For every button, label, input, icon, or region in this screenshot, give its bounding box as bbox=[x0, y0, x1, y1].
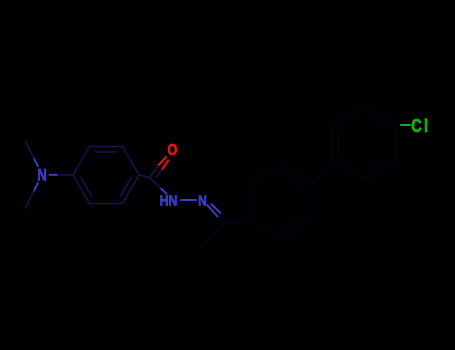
ring B inner double bond top-right bbox=[368, 115, 388, 127]
benzene ring B (chlorophenyl) bbox=[333, 107, 397, 179]
ring 1 inner double bond lower-left bbox=[81, 177, 92, 195]
benzene ring A (central phenylene) bbox=[248, 166, 312, 238]
bond N1-CH3 upper methyl bbox=[26, 142, 38, 167]
carbonyl C7=O double bond main line bbox=[150, 157, 167, 177]
ring B inner double bond bottom bbox=[368, 159, 388, 171]
svg-text:O: O bbox=[167, 142, 177, 160]
svg-text:Cl: Cl bbox=[411, 115, 430, 136]
ring A inner double bond left bbox=[253, 191, 255, 214]
bond ring B to Cl bbox=[397, 124, 410, 126]
bond C8 to ring A ipso carbon bbox=[224, 220, 248, 224]
bond C7-N3 amide bbox=[150, 178, 167, 194]
bond N3-N4 hydrazide N-N bbox=[181, 199, 196, 201]
bond C4-C7 to carbonyl carbon bbox=[139, 175, 150, 178]
svg-text:N: N bbox=[37, 166, 47, 185]
benzene ring 1 (dimethylamino phenyl) bbox=[73, 147, 139, 204]
biphenyl link bond ring A to ring B bbox=[312, 161, 333, 184]
svg-text:HN: HN bbox=[160, 192, 178, 208]
bond N1-CH3 lower methyl bbox=[26, 183, 38, 208]
ring A inner double bond bottom bbox=[283, 218, 303, 230]
ring 1 inner double bond top bbox=[95, 151, 116, 153]
bond N4=C8 double, main line bbox=[207, 205, 224, 224]
bond C8-CH3 methyl on hydrazone carbon bbox=[201, 224, 224, 247]
ring A inner double bond top-right bbox=[283, 174, 303, 186]
carbonyl C7=O double bond inner line bbox=[156, 160, 168, 177]
bond N4=C8 double, inner line bbox=[211, 204, 225, 221]
ring B inner double bond left bbox=[338, 132, 340, 155]
ring 1 inner double bond lower-right bbox=[121, 177, 132, 195]
bond N1-C1 ring link bbox=[50, 174, 74, 176]
svg-text:N: N bbox=[198, 192, 207, 209]
